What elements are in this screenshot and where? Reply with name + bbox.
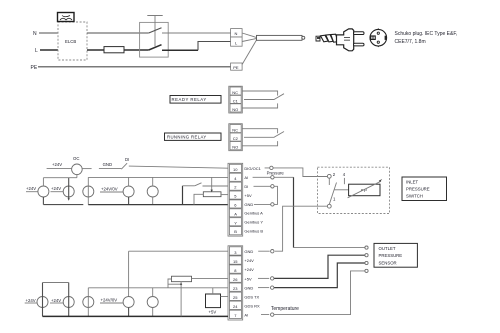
jack J10	[123, 297, 134, 308]
svg-text:AI: AI	[244, 175, 248, 180]
wire bus D to terminal 23	[168, 287, 228, 289]
connector circle DIG/OC1	[270, 166, 273, 169]
jack J5	[123, 186, 134, 197]
svg-text:+24V: +24V	[244, 267, 254, 272]
connector circle DI	[271, 185, 274, 188]
jack J11	[147, 297, 158, 308]
svg-text:25: 25	[233, 295, 238, 300]
ELCB U1	[58, 22, 87, 60]
wire J11 stubs	[152, 288, 154, 317]
switch S1 pole L blade	[149, 45, 162, 50]
wire DI jumper to GND	[254, 186, 278, 204]
READY RELAY label box	[170, 96, 221, 104]
jack J9	[83, 297, 94, 308]
svg-text:+24V: +24V	[26, 298, 36, 303]
svg-text:DI: DI	[244, 184, 248, 189]
wire PE	[38, 66, 231, 68]
wire J6 bottom stub	[152, 197, 154, 205]
svg-text:B: B	[234, 229, 237, 234]
plug pin bottom	[354, 43, 365, 46]
B1 adjust arrow	[348, 181, 381, 198]
svg-text:+24V: +24V	[52, 162, 62, 167]
wire +5V 26 to sensor	[258, 277, 269, 279]
connector circle GND	[271, 203, 274, 206]
svg-text:C2: C2	[233, 136, 239, 141]
svg-text:+24V: +24V	[26, 186, 36, 191]
power cable W1	[257, 35, 305, 40]
jack J2	[63, 186, 74, 197]
svg-text:+5V: +5V	[244, 193, 252, 198]
K1 NO wire	[242, 103, 277, 108]
OC jack stub to bus	[76, 175, 78, 178]
wire DI2 drop	[182, 186, 184, 205]
bus B top (to AI terminal 4)	[88, 176, 228, 178]
connector circle GND3	[271, 250, 274, 253]
svg-text:A: A	[234, 211, 237, 216]
svg-text:NC: NC	[232, 90, 238, 95]
wire J8 vertical	[68, 283, 70, 317]
switch S1 enclosure	[140, 22, 169, 57]
OC jack J3	[72, 164, 83, 175]
wire pressure vertical bold	[293, 177, 295, 247]
K2 NC wire	[242, 129, 277, 134]
svg-text:Schuko plug. IEC Type E&F,: Schuko plug. IEC Type E&F,	[395, 31, 458, 37]
terminal X1-L	[231, 37, 243, 46]
svg-text:Genibus B: Genibus B	[244, 229, 263, 234]
B1 switch blade	[329, 183, 336, 205]
connector circle AI7	[271, 313, 274, 316]
svg-text:15: 15	[233, 259, 238, 264]
wire J4 vertical	[87, 177, 89, 204]
RP2 wiper jumper	[168, 283, 181, 285]
svg-text:N: N	[235, 31, 238, 36]
wire N ELCB to switch S1	[87, 32, 149, 34]
DI2 switch wire	[183, 185, 195, 187]
wire DI to terminal 10	[129, 166, 228, 168]
wire J9 vertical	[87, 288, 89, 317]
jack J6	[147, 186, 158, 197]
svg-text:+24V: +24V	[244, 258, 254, 263]
svg-text:PE: PE	[31, 65, 38, 71]
connector circle GND23	[271, 286, 274, 289]
svg-text:+5V: +5V	[209, 310, 217, 315]
wire DIG/OC1 to pressure switch terminal 2	[265, 168, 328, 177]
K2 C2 wire and blade	[244, 132, 284, 138]
svg-text:24: 24	[233, 304, 238, 309]
wire resistor to switch	[124, 49, 149, 51]
sensor connector circles	[365, 246, 368, 249]
svg-text:PE: PE	[233, 65, 239, 70]
svg-text:OUTLET: OUTLET	[379, 246, 396, 251]
svg-text:GND: GND	[244, 249, 253, 254]
svg-text:SENSOR: SENSOR	[379, 260, 397, 265]
connector circle +5V	[271, 277, 274, 280]
svg-text:READY RELAY: READY RELAY	[172, 97, 207, 102]
Schuko plug P1 side view	[337, 29, 365, 51]
connector circle AI	[271, 176, 274, 179]
switch S1 actuator T-bar	[147, 16, 162, 47]
RP2 wiper junction	[180, 283, 182, 285]
svg-text:L: L	[35, 48, 38, 54]
svg-text:+24V/0V: +24V/0V	[101, 298, 118, 303]
wire J5 top stub	[128, 177, 130, 186]
svg-text:PRESSURE: PRESSURE	[406, 187, 430, 192]
wire J1 bottom stub	[42, 197, 44, 205]
wire B1 terminal 1 to GND terminal 3	[258, 206, 327, 251]
K2 NO wire	[242, 141, 277, 146]
wire +24V to OC jack	[47, 168, 72, 170]
RP2 right wire to terminal 26	[192, 277, 229, 279]
wire GND terminal 3 horizontal	[129, 250, 228, 252]
wire J7 vertical	[42, 283, 44, 317]
svg-text:OC: OC	[73, 156, 79, 161]
plug pin top	[354, 32, 365, 35]
resistor R1	[104, 47, 124, 53]
bus A top	[43, 177, 77, 179]
svg-text:DIG/OC1: DIG/OC1	[244, 166, 261, 171]
svg-text:INLET: INLET	[406, 180, 419, 185]
svg-text:NO: NO	[232, 107, 238, 112]
relay K1 terminal block	[229, 86, 243, 113]
RP1 right wire to +5V terminal 5	[221, 194, 228, 196]
svg-text:NC: NC	[232, 128, 238, 133]
terminal X1-PE	[231, 63, 243, 70]
B1 terminal 1	[327, 204, 331, 208]
jack J4	[83, 186, 94, 197]
B1 terminal 4 stub	[343, 178, 345, 184]
svg-text:CEE7/7, 1.8m: CEE7/7, 1.8m	[395, 39, 426, 45]
ELCB test element symbol	[58, 13, 75, 22]
svg-text:ELCB: ELCB	[65, 39, 76, 44]
svg-text:N: N	[33, 31, 37, 37]
svg-text:+24V: +24V	[51, 186, 61, 191]
bus A bottom	[43, 204, 83, 206]
jack J8	[63, 297, 74, 308]
wire J2 vertical with arrow	[68, 178, 70, 199]
wire pressure to sensor top	[294, 247, 365, 249]
wire AI 7 temperature to sensor	[261, 271, 365, 315]
A1 wire to terminal 25	[221, 296, 229, 298]
wire L ELCB to resistor	[87, 49, 104, 51]
wire DI2 to terminal 2	[203, 185, 229, 187]
svg-text:10: 10	[233, 167, 238, 172]
svg-text:DI: DI	[125, 157, 129, 162]
svg-text:RUNNING RELAY: RUNNING RELAY	[167, 135, 207, 140]
wire J5 bottom stub	[128, 197, 130, 205]
Schuko plug face view	[370, 28, 387, 47]
DI switch blade	[121, 163, 127, 169]
svg-text:NO: NO	[232, 145, 238, 150]
svg-text:PRESSURE: PRESSURE	[379, 253, 403, 258]
bus B bottom to GND terminal 6	[88, 204, 228, 206]
svg-text:GND: GND	[244, 285, 253, 290]
B1 pressure element link	[335, 189, 349, 191]
RP2 wiper drop to bus	[180, 282, 182, 317]
B1 terminal 2	[327, 174, 331, 178]
svg-text:+24V/0V: +24V/0V	[101, 187, 118, 192]
wire N terminal to cable node	[242, 33, 256, 38]
svg-text:Genibus Y: Genibus Y	[244, 220, 263, 225]
OUTLET PRESSURE SENSOR label box	[374, 243, 417, 267]
wire L terminal to cable node	[242, 39, 256, 42]
potentiometer RP1	[203, 192, 221, 197]
inlet pressure switch B1 enclosure	[318, 167, 390, 213]
wire L switch step to terminal L	[162, 49, 198, 51]
terminal X1-N	[231, 29, 243, 37]
bus C top	[43, 282, 69, 284]
svg-text:Y: Y	[234, 220, 237, 225]
B1 pressure element box	[349, 184, 380, 196]
wire N to ELCB	[39, 32, 58, 34]
svg-text:C1: C1	[233, 98, 239, 103]
relay K2 terminal block	[229, 124, 243, 151]
wire GND segment	[99, 168, 121, 170]
DI2 switch blade	[195, 183, 202, 186]
K1 NC wire	[242, 91, 277, 96]
svg-text:+5V: +5V	[244, 276, 252, 281]
svg-text:SWITCH: SWITCH	[406, 194, 423, 199]
svg-text:GDS RX: GDS RX	[244, 303, 260, 308]
GDS module A1 box	[206, 294, 221, 308]
RP2 left wire down	[168, 279, 172, 288]
cable strain relief	[316, 34, 338, 42]
jack J7	[37, 297, 48, 308]
switch S1 pole N blade	[149, 28, 162, 33]
wire AI pressure to sensor	[253, 176, 294, 178]
svg-text:Genibus A: Genibus A	[244, 211, 263, 216]
wire J6 top stub	[152, 177, 154, 186]
RUNNING RELAY label box	[165, 133, 222, 140]
wire GND3 drop to J10	[128, 251, 130, 296]
svg-text:AI: AI	[244, 313, 248, 318]
wire N switch to terminal N	[162, 32, 231, 34]
potentiometer RP2	[172, 276, 192, 282]
wire PE terminal to cable node	[242, 40, 257, 65]
bottom bus dark	[43, 315, 229, 317]
B1 terminal 2 stub	[328, 178, 330, 185]
wire GND 23 to sensor	[258, 287, 269, 289]
svg-text:Pressure: Pressure	[267, 171, 285, 176]
A1 top wire	[212, 288, 214, 294]
wire J10 bottom stub	[128, 308, 130, 317]
wire OC right stub	[82, 168, 91, 170]
svg-text:GDS TX: GDS TX	[244, 294, 259, 299]
RP1 wiper arrow from bus B	[211, 177, 213, 190]
svg-text:26: 26	[233, 277, 238, 282]
svg-text:GND: GND	[244, 202, 253, 207]
svg-text:+24V: +24V	[51, 298, 61, 303]
wire J1 top stub	[42, 178, 44, 186]
svg-text:Temperature: Temperature	[271, 306, 299, 312]
RP1 left wire to bus	[194, 194, 203, 204]
svg-text:23: 23	[233, 286, 238, 291]
svg-text:GND: GND	[103, 162, 113, 167]
bus D to GND terminal 23	[88, 287, 168, 289]
jack J1	[38, 186, 49, 197]
terminal block X3	[228, 246, 243, 320]
INLET PRESSURE SWITCH label box	[402, 177, 447, 201]
wire L to ELCB	[40, 49, 58, 51]
K1 C1 wire and blade	[244, 94, 284, 100]
terminal block X2	[228, 163, 243, 236]
